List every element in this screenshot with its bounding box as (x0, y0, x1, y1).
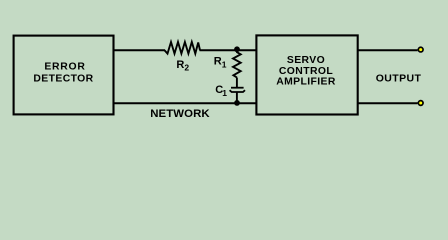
terminal T1 (top output, yellow center) (418, 46, 424, 52)
svg-text:1: 1 (222, 59, 227, 69)
servo control amplifier block U2 (256, 35, 357, 114)
svg-text:1: 1 (222, 88, 227, 98)
svg-text:DETECTOR: DETECTOR (33, 73, 93, 84)
error detector block U1 (14, 36, 114, 115)
wire: network return (error detector to servo amplifier) (114, 102, 258, 104)
svg-text:AMPLIFIER: AMPLIFIER (276, 76, 336, 87)
svg-text:CONTROL: CONTROL (279, 66, 333, 77)
svg-text:R: R (214, 56, 222, 68)
wire: servo amplifier to top output terminal (358, 49, 418, 51)
svg-text:OUTPUT: OUTPUT (376, 72, 422, 84)
svg-text:NETWORK: NETWORK (150, 108, 210, 120)
svg-text:2: 2 (184, 63, 189, 73)
resistor R2 (horizontal zigzag) (165, 42, 201, 73)
wire: servo amplifier to bottom output terminal (358, 102, 418, 104)
svg-text:R: R (176, 59, 184, 71)
terminal T2 (bottom output, yellow center) (418, 100, 424, 106)
wire: R1 to C1 (236, 78, 238, 88)
capacitor C1 (215, 84, 245, 98)
wire: R2 to servo amplifier input (through node A) (200, 49, 258, 51)
node A junction dot (top of network branch) (234, 46, 240, 52)
svg-text:ERROR: ERROR (44, 61, 85, 72)
svg-text:SERVO: SERVO (287, 55, 325, 66)
node B junction dot (bottom of network branch) (234, 100, 240, 106)
wire: error detector output to R2 (114, 49, 166, 51)
resistor R1 (vertical zigzag) (214, 49, 241, 77)
wire: C1 to bottom network wire (236, 92, 238, 103)
